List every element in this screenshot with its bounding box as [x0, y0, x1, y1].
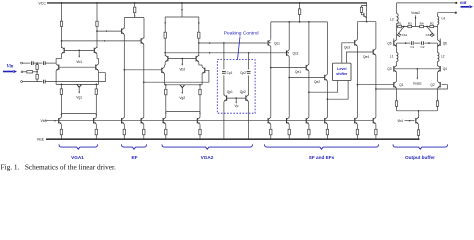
wire [394, 27, 397, 41]
svg-text:Cb2: Cb2 [426, 33, 432, 37]
node [248, 52, 250, 54]
EF brace [122, 144, 147, 149]
wire [201, 65, 203, 67]
SF2 mirror resistor [360, 7, 362, 12]
VGA1 cascode Qc2 [94, 47, 97, 54]
svg-text:Q5: Q5 [387, 41, 391, 45]
VGA2 collector rail [165, 16, 199, 18]
svg-text:out: out [460, 1, 467, 6]
Cb2 label [426, 33, 432, 37]
Vb4 label [397, 119, 403, 123]
EF label [132, 155, 138, 160]
Qe1 base line [270, 67, 306, 69]
level shifter box [333, 63, 352, 80]
svg-text:VCC: VCC [38, 1, 46, 5]
driver line 2 [375, 85, 447, 90]
svg-text:Qp2: Qp2 [240, 90, 246, 94]
SF and EFs brace [265, 144, 379, 149]
wire [356, 46, 358, 117]
wire [270, 22, 272, 39]
wire [437, 88, 439, 101]
node [223, 42, 225, 44]
signal arrow [209, 52, 211, 54]
wire [61, 47, 63, 59]
EF feed resistor [134, 7, 136, 13]
svg-text:Q6: Q6 [443, 41, 447, 45]
signal arrow [106, 30, 108, 32]
svg-text:Vb1: Vb1 [76, 60, 82, 64]
wire [96, 54, 98, 59]
Qe4 label [363, 55, 369, 59]
VGA2 left load [164, 17, 166, 56]
signal arrow [104, 40, 106, 42]
inductor L1 [397, 47, 399, 67]
svg-text:Level: Level [337, 67, 346, 71]
wire [61, 26, 63, 48]
level shifter input 1 [308, 81, 338, 94]
VGA1 left load resistor [60, 21, 62, 26]
resistor R3 [408, 25, 412, 27]
VGA2 cascode Qc4 [196, 55, 199, 62]
peaking transistor Qp2 [246, 95, 249, 102]
node [299, 2, 301, 4]
VGA2 brace [162, 144, 253, 149]
VGA2 tail interconnect [165, 112, 201, 115]
wire [356, 22, 358, 40]
transistor Qe4 [373, 49, 376, 56]
VGA1 right load resistor [96, 21, 98, 26]
VGA2 current source Qt4 [197, 117, 201, 139]
Qp1 label [227, 90, 233, 94]
capacitor Cin3 [43, 80, 45, 84]
wire [164, 65, 166, 67]
SF feed resistor [298, 9, 300, 15]
VGA1 current source Qt2 [94, 117, 98, 139]
transistor Q3 [394, 65, 397, 72]
Q1 label [399, 83, 403, 87]
wire [33, 62, 42, 64]
svg-text:Qp1: Qp1 [227, 90, 233, 94]
Q5 label [387, 41, 391, 45]
Vcas1 arrow [416, 68, 418, 80]
VGA1 label [71, 155, 84, 160]
VGA1 cascode base line [64, 49, 94, 51]
svg-text:Cb1: Cb1 [402, 33, 408, 37]
svg-text:Vg1: Vg1 [76, 95, 82, 99]
svg-text:VGA1: VGA1 [71, 155, 84, 160]
svg-text:R1: R1 [398, 21, 402, 25]
wire [123, 27, 125, 30]
Cb1 label [402, 33, 408, 37]
svg-text:R3: R3 [408, 21, 412, 25]
tail resistor [417, 130, 419, 136]
out arrow [461, 5, 474, 8]
Q2 emitter resistor [436, 101, 438, 107]
R4 label [420, 21, 424, 25]
wire [201, 74, 203, 85]
VCC rail [47, 2, 367, 4]
Vb2 bias arrow [181, 58, 183, 66]
transistor Q2 [438, 81, 441, 88]
Qe4 current source [373, 117, 377, 139]
svg-text:EF: EF [132, 155, 138, 160]
VGA2 current source Qt3 [163, 117, 167, 139]
wire [143, 44, 145, 117]
Qe1 label [295, 70, 301, 74]
VGA2 left degeneration resistor [165, 85, 167, 118]
capacitor Cp1 [222, 72, 226, 74]
VGA2 output line 1 [198, 42, 268, 44]
wire [22, 62, 30, 64]
Vb1 label [76, 60, 82, 64]
transistor Q4 [438, 65, 441, 72]
resistor R4 [420, 25, 424, 27]
svg-text:Q1: Q1 [399, 83, 403, 87]
svg-text:Cp2: Cp2 [240, 71, 246, 75]
Qp base line [227, 97, 246, 99]
EF1 base line [97, 30, 122, 32]
VGA1 input Q1b [96, 64, 99, 71]
peaking left wire [223, 43, 225, 69]
peaking transistor Qp1 [224, 95, 227, 102]
wire [418, 110, 420, 118]
transistor Qe3 [355, 39, 358, 46]
VGA1 left load wire [61, 3, 63, 21]
ladder wire [397, 26, 438, 28]
C1 label [410, 45, 414, 49]
VGA1 gain element [77, 84, 82, 93]
node [61, 84, 63, 86]
node [61, 40, 63, 42]
VGA2 right degeneration resistor [199, 85, 201, 118]
EF2 output line [143, 70, 209, 83]
VGA1 cascode Qc1 [62, 47, 65, 54]
VGA1 emitter line [56, 83, 98, 85]
Vin label [7, 65, 14, 70]
SF feed wire [299, 3, 301, 9]
wire [164, 62, 167, 65]
wire [375, 22, 377, 49]
Vp tail [235, 98, 237, 104]
node [96, 2, 98, 4]
EF collector rail [124, 17, 144, 19]
capacitor Cb2 [427, 27, 434, 37]
EF feed wire [134, 3, 136, 7]
input terminal bottom [21, 81, 23, 83]
wire [248, 75, 250, 95]
VCC corner feed [366, 3, 368, 22]
svg-text:Qe1: Qe1 [295, 70, 301, 74]
Vb3 label [40, 119, 46, 123]
VCC label [38, 1, 46, 5]
Vg2 label [179, 96, 185, 100]
Vb3 bias line [45, 120, 373, 122]
emitter follower Qf2 [141, 38, 144, 45]
SF2 collector rail [357, 21, 376, 23]
wire [223, 102, 225, 140]
svg-text:R2: R2 [430, 21, 434, 25]
wire to right input emitter [45, 73, 105, 82]
svg-text:Vg2: Vg2 [179, 96, 185, 100]
L4 label [442, 17, 446, 21]
Qe4 base line [346, 52, 373, 63]
wire [33, 71, 38, 73]
emitter link line [397, 43, 438, 46]
svg-text:Vb2: Vb2 [179, 68, 185, 72]
wire [437, 106, 439, 111]
Vg1 label [76, 95, 82, 99]
Qe2 current source [325, 117, 329, 139]
resistor R2 [430, 25, 434, 27]
emitter follower Qe2 [325, 74, 328, 81]
svg-text:Qs1: Qs1 [274, 42, 280, 46]
wire [418, 135, 420, 139]
Qe3 label [344, 46, 350, 50]
wire [438, 27, 441, 41]
wire [396, 106, 398, 111]
SF and EFs label [309, 155, 335, 160]
svg-text:Fig. 1. Schematics of the li: Fig. 1. Schematics of the linear driver. [1, 163, 116, 172]
Qp2 label [240, 90, 246, 94]
Q3 label [387, 67, 391, 71]
wire [326, 81, 328, 117]
driver line 1 [357, 84, 394, 86]
peaking right wire [248, 53, 250, 70]
VGA1 left degeneration resistor [60, 84, 62, 117]
input terminal top [21, 62, 23, 64]
svg-text:Output buffer: Output buffer [405, 155, 435, 160]
input terminal mid [21, 71, 23, 73]
node [428, 42, 430, 44]
transistor Q1 [394, 81, 397, 88]
Output buffer brace [393, 144, 448, 149]
node [165, 84, 167, 86]
Vb1 bias arrow [78, 50, 80, 58]
VGA2 gain element [180, 85, 185, 94]
signal arrow [209, 42, 211, 44]
VGA2 output line 2 [164, 52, 286, 54]
svg-text:Q4: Q4 [443, 67, 447, 71]
level shifter text [336, 67, 348, 76]
VGA1 right degeneration resistor [95, 84, 97, 117]
svg-text:Vb4: Vb4 [397, 119, 403, 123]
svg-text:L4: L4 [442, 17, 446, 21]
VGA2 cascode base line [168, 58, 196, 60]
svg-text:Vp: Vp [234, 104, 238, 108]
SF2 mirror loop [362, 6, 367, 8]
svg-text:L1: L1 [390, 54, 394, 58]
node [181, 2, 183, 4]
inductor L3 [397, 3, 399, 27]
wire [288, 57, 290, 118]
wire [55, 71, 57, 85]
svg-text:Qe3: Qe3 [344, 46, 350, 50]
Output buffer label [405, 155, 435, 160]
capacitor C2 [422, 41, 424, 45]
VGA2 right load [198, 17, 200, 56]
cascode base line [394, 68, 440, 70]
tail transistor Qt5 [416, 117, 419, 124]
out line 2 [438, 12, 457, 14]
wire [418, 124, 420, 130]
emitter follower Qe1 [306, 64, 309, 71]
peaking pointer line [238, 37, 241, 60]
VGA1 input base line [59, 66, 96, 68]
emitter follower Qf1 [122, 28, 125, 35]
svg-text:Q2: Q2 [430, 83, 434, 87]
VGA2 feed arrow [181, 9, 183, 11]
EF2 current source [141, 117, 145, 139]
wire [437, 72, 439, 81]
Qe2 label [314, 80, 320, 84]
wire [97, 59, 99, 64]
svg-text:Vcas1: Vcas1 [413, 82, 422, 86]
wire [223, 75, 225, 95]
Vcas1 label [413, 82, 422, 86]
svg-text:shifter: shifter [336, 72, 348, 76]
node [61, 2, 63, 4]
inductor L2 [438, 47, 440, 67]
svg-text:Q3: Q3 [387, 67, 391, 71]
source follower Qs1 [268, 40, 271, 47]
svg-text:Peaking Control: Peaking Control [224, 31, 259, 37]
svg-text:R4: R4 [420, 21, 424, 25]
wire [96, 26, 98, 48]
svg-text:Qe4: Qe4 [363, 55, 369, 59]
C2 label [421, 45, 425, 49]
figure caption [1, 163, 116, 172]
VGA2 label [201, 155, 214, 160]
SF2 mirror transistor [362, 12, 367, 17]
svg-text:C2: C2 [421, 45, 425, 49]
EF1 output line [123, 69, 161, 71]
L2 label [441, 54, 445, 58]
VGA1 tail interconnect [61, 114, 98, 117]
EF1 current source [122, 117, 126, 139]
wire [299, 14, 301, 22]
Qs1 label [274, 42, 280, 46]
Cp1 label [227, 71, 233, 75]
svg-text:L3: L3 [390, 17, 394, 21]
VGA2 cascode Qc3 [165, 55, 168, 62]
resistor Rm [27, 71, 33, 73]
svg-text:VGA2: VGA2 [201, 155, 214, 160]
wire [45, 62, 56, 64]
node [36, 71, 38, 73]
node [405, 42, 407, 44]
wire [143, 37, 145, 40]
tail link line [397, 110, 438, 112]
Qs2 current source [287, 117, 291, 139]
wire [308, 22, 310, 64]
wire [270, 46, 272, 117]
capacitor Cp2 [247, 72, 251, 74]
svg-text:Vin: Vin [7, 65, 14, 70]
VGA1 input Q1a [56, 64, 59, 71]
svg-text:L2: L2 [441, 54, 445, 58]
wire [164, 74, 166, 85]
Vp label [234, 104, 238, 108]
wire [123, 18, 125, 29]
Q4 label [443, 67, 447, 71]
Cp2 label [240, 71, 246, 75]
wire [375, 55, 377, 117]
node [403, 26, 405, 28]
EF feed arrow [134, 13, 136, 18]
node [95, 84, 97, 86]
svg-text:VEE: VEE [37, 138, 45, 142]
svg-text:Cp1: Cp1 [227, 71, 233, 75]
wire [396, 72, 398, 81]
R3 label [408, 21, 412, 25]
out line 1 [397, 2, 458, 4]
Vcas2 arrow [415, 15, 417, 26]
wire [23, 71, 27, 73]
L3 label [390, 17, 394, 21]
Vb2 label [179, 68, 185, 72]
inductor L4 [438, 13, 439, 27]
svg-text:SF and EFs: SF and EFs [309, 155, 335, 160]
Q1 emitter resistor [395, 101, 397, 107]
Qs1 current source [268, 117, 272, 139]
svg-text:Vcas2: Vcas2 [411, 11, 420, 15]
EF2 base line [62, 40, 142, 42]
capacitor Cb1 [397, 27, 404, 37]
VGA2 input Q2b [202, 67, 205, 74]
wire [396, 88, 398, 101]
wire [199, 62, 202, 65]
wire [288, 22, 290, 50]
resistor R1 [398, 25, 402, 27]
L1 label [390, 54, 394, 58]
source follower Qs2 [287, 50, 290, 57]
R1 label [398, 21, 402, 25]
capacitor C1 [411, 41, 413, 45]
transistor Q5 [394, 40, 397, 47]
out label [460, 1, 467, 6]
VGA1 right load wire [96, 3, 98, 21]
wire [248, 102, 250, 140]
VEE label [37, 138, 45, 142]
SF collector rail [271, 21, 328, 23]
wire [123, 35, 125, 118]
peaking control box [217, 60, 255, 114]
node [134, 2, 136, 4]
termination resistor Rt2 [36, 74, 38, 81]
VGA2 feed wire [181, 3, 183, 17]
R2 label [430, 21, 434, 25]
wire [56, 59, 61, 64]
Qe1 current source [306, 117, 310, 139]
capacitor Cin2 [43, 61, 45, 65]
node [96, 30, 98, 32]
node [36, 62, 38, 64]
wire [143, 18, 145, 39]
wire [326, 22, 328, 74]
Vb4 lead [405, 120, 415, 122]
svg-text:Qs2: Qs2 [293, 52, 299, 56]
wire [36, 69, 38, 74]
Vcas2 label [411, 11, 420, 15]
Qe3 current source [355, 117, 359, 139]
Qs2 label [293, 52, 299, 56]
level shifter input 2 [327, 81, 349, 101]
Vin arrow [3, 70, 17, 73]
wire [22, 81, 42, 83]
wire [308, 71, 310, 117]
wire [98, 71, 100, 85]
transistor Q6 [438, 40, 441, 47]
